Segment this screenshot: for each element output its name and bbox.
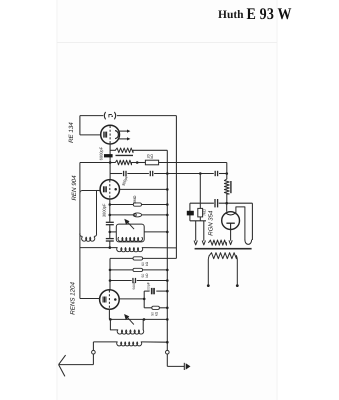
- coil L4a: [109, 319, 111, 330]
- coil L4b antenna coil: [93, 341, 117, 343]
- svg-text:RGN 354: RGN 354: [207, 210, 214, 236]
- wire anode: [226, 203, 228, 212]
- junction: [225, 202, 228, 205]
- AF transformer winding 1: [110, 149, 115, 151]
- junction: [109, 214, 112, 217]
- wire row 173 segment: [127, 173, 148, 175]
- wire jack row right: [117, 115, 176, 117]
- capacitor 6000pF: [104, 154, 113, 157]
- junction: [166, 279, 169, 282]
- junction: [109, 246, 112, 249]
- RC combo 100pF / 50k: [143, 291, 145, 308]
- junction: [109, 318, 112, 321]
- choke L5: [226, 163, 228, 180]
- junction: [166, 307, 169, 310]
- capacitor C6: [132, 278, 134, 283]
- wire PSU top row right: [219, 202, 253, 204]
- rectifier tube V4 RGN 354: [222, 212, 240, 230]
- filament down lead: [230, 229, 232, 240]
- junction: [166, 318, 169, 321]
- AF transformer core: [116, 154, 134, 156]
- grid combo (oval): [110, 214, 134, 216]
- heater tap wires with hooks: [195, 221, 197, 241]
- transformer primary: [209, 253, 236, 259]
- speaker output arrows: [118, 130, 127, 132]
- wire REN904 plate: [120, 188, 168, 190]
- wire REN904 cathode column: [109, 199, 111, 222]
- coil L2 box (variometer): [116, 224, 144, 242]
- page left edge: [56, 0, 58, 400]
- rail B (x=176): [175, 116, 177, 259]
- junction: [143, 298, 146, 301]
- svg-text:RENS 1204: RENS 1204: [69, 282, 76, 315]
- junction: [109, 161, 112, 164]
- junction: [166, 231, 169, 234]
- resistor 7k: [198, 208, 203, 217]
- resistor 60k: [110, 257, 133, 259]
- capacitor C8: [214, 199, 216, 207]
- resistor 2M: [110, 204, 134, 206]
- trimmer arrow: [128, 222, 134, 229]
- coil L3: [80, 247, 117, 249]
- tube V1 RENS 1204: [100, 290, 120, 310]
- svg-text:kΩ: kΩ: [145, 261, 149, 266]
- capacitor block (hum): [189, 203, 191, 221]
- title rule: [57, 42, 277, 44]
- wire RE134 filament left: [80, 134, 101, 136]
- svg-text:7kΩ: 7kΩ: [202, 209, 206, 216]
- svg-text:REN 904: REN 904: [71, 175, 78, 201]
- wire grid RE134 down: [109, 144, 111, 163]
- junction: [226, 172, 229, 175]
- capacitor 100pF: [151, 288, 153, 294]
- svg-text:Huth: Huth: [218, 9, 244, 21]
- junction: [166, 269, 169, 272]
- mains terminal: [236, 284, 239, 287]
- wire box to rail: [144, 231, 167, 233]
- junction: [109, 231, 112, 234]
- antenna symbol: [59, 364, 94, 366]
- junction: [109, 279, 112, 282]
- jack plug pin: [109, 115, 112, 118]
- svg-text:2MΩ: 2MΩ: [133, 195, 137, 203]
- second filament lead: [236, 207, 245, 240]
- resistor 50k: [110, 269, 133, 271]
- svg-text:100pF: 100pF: [147, 282, 151, 292]
- transformer core: [195, 248, 252, 250]
- junction: [143, 318, 146, 321]
- tube V3 RE 134: [101, 125, 120, 144]
- wire row 173 segment: [154, 173, 214, 175]
- resistor 20k: [145, 160, 158, 165]
- svg-text:5000: 5000: [132, 282, 136, 289]
- wire PSU top row: [190, 202, 214, 204]
- row 319 with trimmer C9: [109, 318, 167, 320]
- junction: [109, 269, 112, 272]
- antenna terminal: [92, 342, 94, 351]
- wire grid column RENS: [109, 258, 111, 289]
- svg-text:E 93 W: E 93 W: [247, 4, 293, 23]
- wire loop bottom: [190, 220, 206, 222]
- choke core: [230, 181, 232, 193]
- wire grid column: [109, 163, 111, 180]
- junction: [166, 172, 169, 175]
- jack right contact: [115, 112, 116, 119]
- earth terminal: [166, 350, 170, 354]
- wire filament to rail: [80, 298, 100, 300]
- hook U: [245, 240, 252, 244]
- tube V2 REN 904: [100, 180, 119, 199]
- capacitor C4: [106, 221, 114, 223]
- rail A (x=167): [166, 150, 168, 366]
- wire RENS cathode down: [108, 309, 110, 319]
- earth arrow: [167, 365, 184, 367]
- wire row 173 segment: [219, 173, 227, 175]
- capacitor C3: [214, 171, 216, 176]
- page area tint: [57, 0, 277, 400]
- junction: [166, 188, 169, 191]
- page right edge: [276, 0, 278, 400]
- wire outer filament lead: [251, 203, 253, 240]
- junction: [166, 203, 169, 206]
- capacitor row 280: [110, 280, 132, 282]
- wire row 173 segment: [110, 173, 122, 175]
- svg-text:6000pF: 6000pF: [99, 146, 104, 160]
- rail left (x=80): [79, 163, 81, 299]
- svg-text:kΩ: kΩ: [150, 154, 154, 159]
- junction: [166, 290, 169, 293]
- capacitor C5: [106, 238, 114, 240]
- wire jack row left: [80, 115, 103, 117]
- wire 7k column: [199, 174, 201, 209]
- junction: [199, 172, 202, 175]
- junction: [166, 214, 169, 217]
- svg-text:RE 134: RE 134: [68, 122, 75, 143]
- svg-text:kΩ: kΩ: [145, 273, 149, 278]
- junction: [109, 203, 112, 206]
- transformer T1 HV winding: [209, 240, 227, 245]
- junction: [136, 161, 139, 164]
- capacitor C2: [149, 171, 151, 176]
- wire RENS plate: [119, 298, 144, 300]
- junction: [166, 341, 169, 344]
- capacitor 300pF: [123, 171, 125, 176]
- wire B+ row: [159, 162, 227, 164]
- svg-text:kΩ: kΩ: [154, 311, 158, 316]
- jack left contact: [104, 112, 105, 119]
- svg-text:3000pF: 3000pF: [101, 203, 106, 217]
- wire down to RE134 filament: [79, 116, 81, 135]
- wire filament stub: [97, 190, 101, 192]
- AF transformer winding 2: [80, 162, 115, 164]
- mains terminal: [207, 284, 210, 287]
